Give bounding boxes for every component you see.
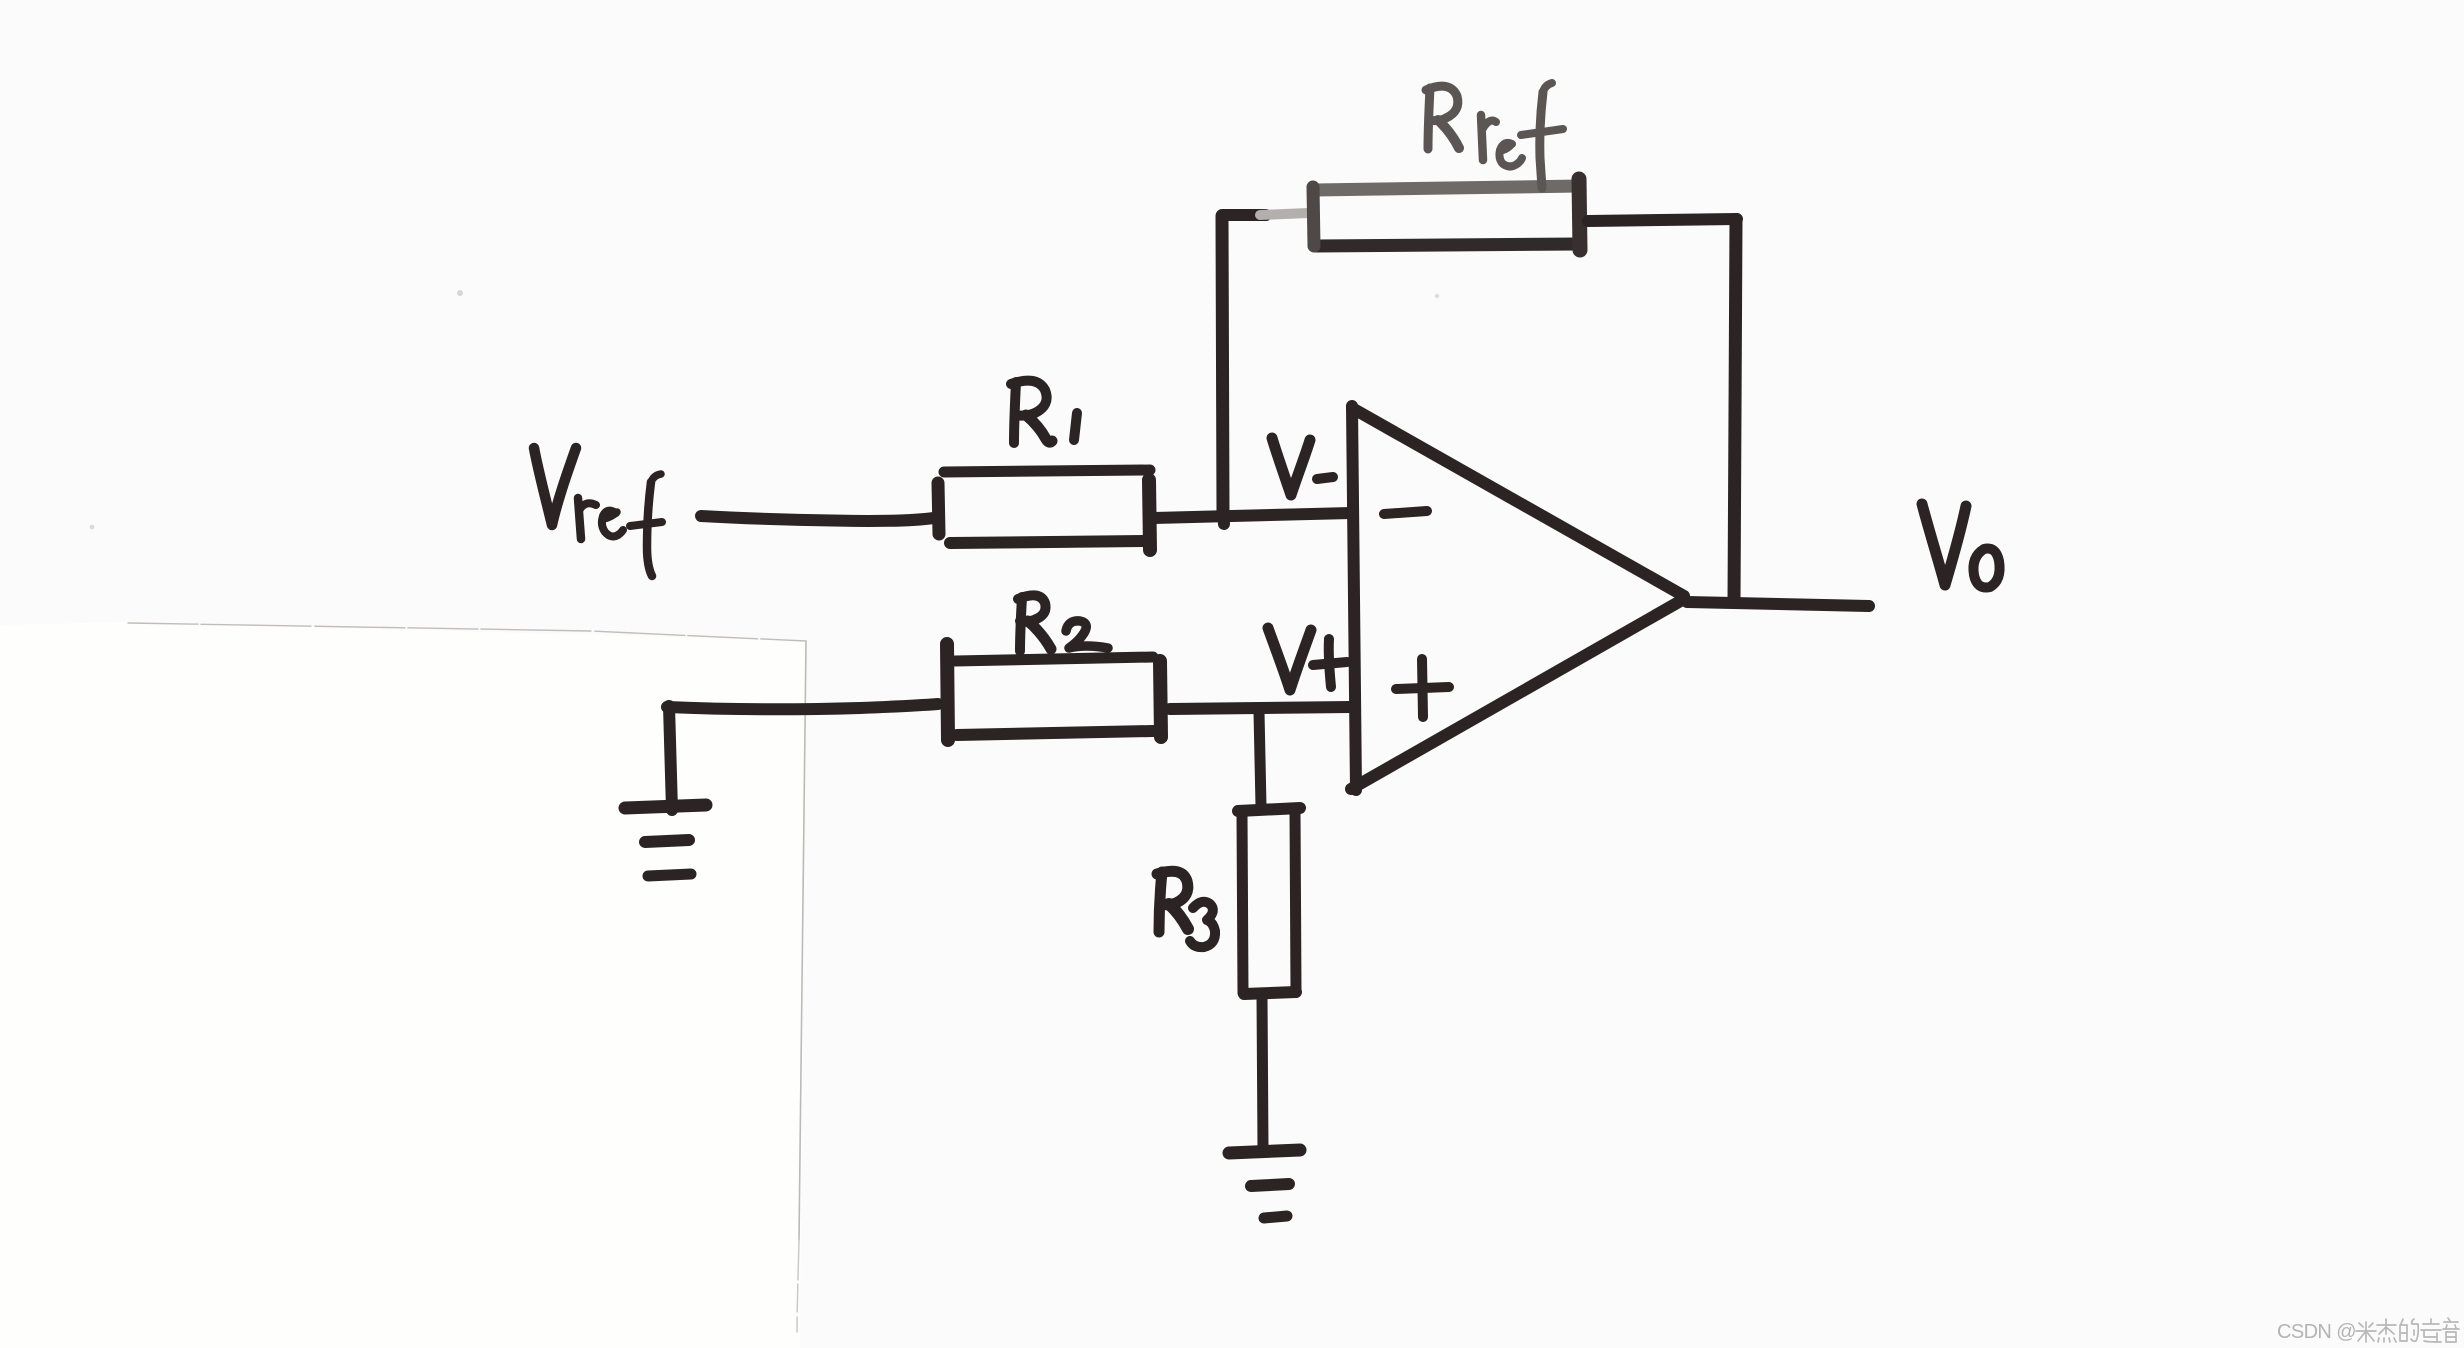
- ground (left, input): [625, 706, 706, 876]
- label V-: [1272, 438, 1333, 495]
- paper speck: [90, 525, 95, 530]
- label R2: [1018, 595, 1108, 651]
- wire Vref to R1: [701, 516, 934, 521]
- junction nub at node V-: [1223, 514, 1224, 524]
- wire node V+ down to R3: [1259, 712, 1261, 806]
- wire Rref left lead: [1222, 209, 1266, 221]
- wire output Vo: [1687, 602, 1869, 606]
- resistor R1: [938, 470, 1150, 550]
- label R3: [1157, 871, 1215, 947]
- paper speck: [457, 290, 463, 296]
- wire R1 to inverting input node: [1154, 513, 1351, 518]
- wire R3 to ground: [1262, 996, 1263, 1148]
- label Vref: [534, 448, 662, 576]
- resistor R3: [1238, 808, 1300, 994]
- op-amp U1: [1351, 406, 1684, 790]
- label Vo: [1922, 504, 2000, 588]
- svg-text:CSDN @: CSDN @: [2277, 1321, 2356, 1343]
- wire ground to R2: [667, 704, 938, 709]
- resistor Rref: [1313, 179, 1580, 250]
- watermark CSDN @米杰的声音: [2277, 1318, 2459, 1343]
- label Rref: [1426, 83, 1563, 188]
- wire R2 to non-inverting input node: [1170, 707, 1351, 709]
- ground (bottom, R3): [1229, 1150, 1300, 1218]
- wire Rref right lead: [1588, 219, 1737, 221]
- wire feedback right vertical (down to output): [1734, 220, 1736, 602]
- op-amp minus pin sign: [1384, 511, 1427, 514]
- label V+: [1268, 628, 1347, 690]
- paper speck: [1435, 294, 1439, 298]
- label R1: [1011, 381, 1077, 443]
- wire feedback left vertical (node V- up to Rref): [1222, 216, 1223, 514]
- op-amp plus pin sign: [1396, 659, 1449, 717]
- paper overlay edge (scanned page corner, bottom-left): [0, 622, 806, 1348]
- resistor R2: [947, 644, 1161, 740]
